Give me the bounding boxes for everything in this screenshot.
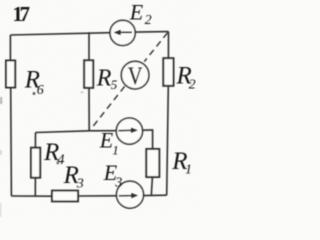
svg-text:2: 2 bbox=[145, 13, 152, 28]
svg-text:3: 3 bbox=[114, 175, 122, 190]
label R3 bbox=[63, 162, 84, 192]
label R5 bbox=[96, 65, 118, 92]
svg-text:6: 6 bbox=[37, 83, 44, 98]
wire middle horizontal left (junction to R4 corner) bbox=[36, 131, 90, 133]
dashed voltmeter lead upper bbox=[144, 33, 167, 62]
svg-text:1: 1 bbox=[185, 162, 192, 177]
source E3 bbox=[117, 181, 144, 208]
scan artifacts bbox=[0, 92, 84, 218]
label R4 bbox=[43, 139, 64, 168]
svg-text:2: 2 bbox=[189, 77, 196, 92]
wire right vertical lower bbox=[167, 86, 169, 195]
svg-text:R: R bbox=[96, 65, 112, 91]
svg-text:E: E bbox=[129, 0, 144, 24]
wire R1 to bottom bbox=[151, 177, 152, 196]
label E2 bbox=[129, 0, 152, 28]
dashed voltmeter lead lower bbox=[91, 86, 125, 129]
paper background bbox=[0, 0, 200, 217]
svg-text:3: 3 bbox=[76, 177, 84, 192]
resistor R6 bbox=[6, 61, 15, 88]
wire left vertical upper bbox=[9, 35, 11, 61]
resistor R5 bbox=[84, 60, 93, 88]
wire left vertical lower bbox=[10, 88, 13, 197]
svg-text:1: 1 bbox=[112, 143, 119, 158]
source E1 bbox=[116, 118, 142, 144]
wire top-right horizontal (E2 to corner) bbox=[135, 31, 169, 33]
label R2 bbox=[176, 63, 196, 93]
label E1 bbox=[99, 128, 119, 158]
arrow of E1 (points right) bbox=[119, 129, 133, 131]
resistor R2 bbox=[163, 58, 173, 86]
wire E1 to R1 branch corner bbox=[142, 130, 152, 149]
wire middle vertical upper bbox=[88, 32, 90, 60]
arrow of E2 (points left) bbox=[117, 31, 132, 33]
wire top-left horizontal (to E2) bbox=[10, 33, 110, 35]
label E3 bbox=[103, 160, 123, 191]
svg-text:V: V bbox=[128, 63, 143, 90]
wire middle horizontal right (junction to E1) bbox=[89, 130, 116, 132]
svg-text:5: 5 bbox=[111, 77, 118, 92]
wire bottom-left horizontal bbox=[11, 195, 52, 197]
wire right vertical upper bbox=[167, 32, 169, 59]
wire R4 branch top bbox=[34, 133, 36, 148]
arrow of E3 (points right) bbox=[119, 195, 133, 197]
resistor R4 bbox=[31, 148, 40, 178]
resistor R3 bbox=[52, 191, 78, 202]
label R6 bbox=[24, 67, 44, 98]
voltmeter V bbox=[121, 61, 149, 89]
source E2 bbox=[110, 20, 135, 45]
wire middle vertical lower bbox=[88, 88, 90, 131]
resistor R1 bbox=[146, 149, 159, 177]
wire bottom (R3 to E3) bbox=[78, 195, 117, 197]
label R1 bbox=[171, 148, 192, 177]
wire R4 to bottom bbox=[34, 178, 36, 197]
wire bottom-right (E3 to corner) bbox=[143, 194, 166, 196]
